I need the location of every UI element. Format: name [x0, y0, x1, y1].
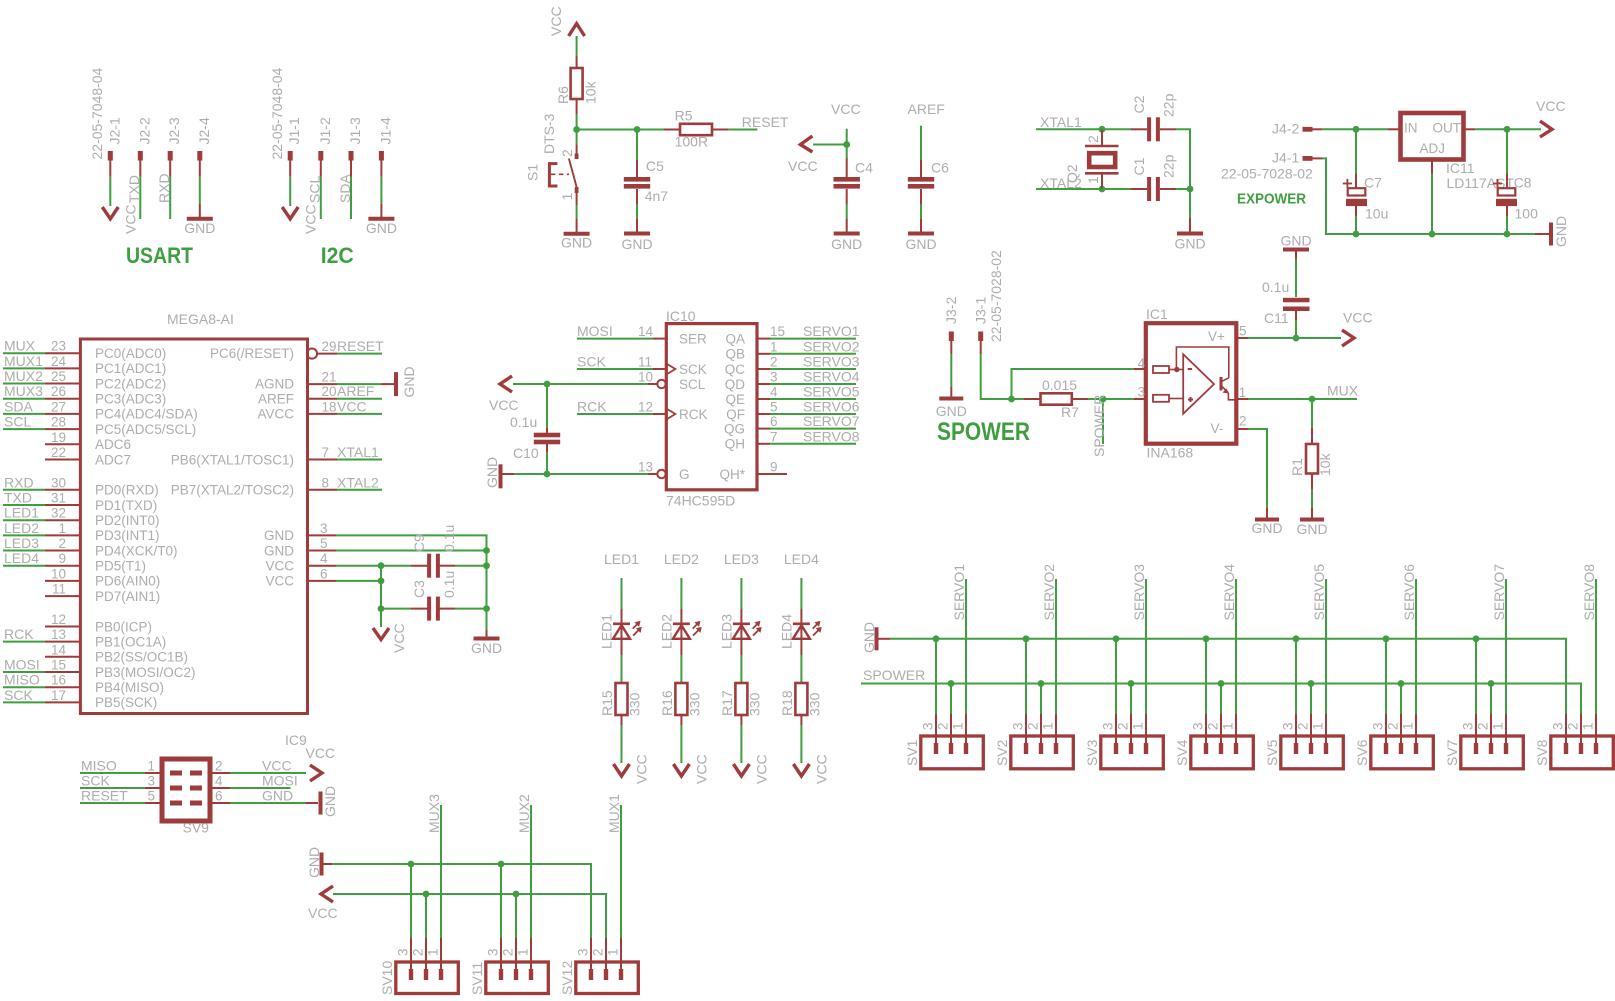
svg-text:LED4: LED4 — [784, 551, 819, 567]
resistor R15 330 — [616, 683, 628, 715]
svg-text:9: 9 — [770, 460, 778, 475]
node reset junction at R6 — [573, 126, 580, 133]
MEGA8 pin 17 PB5(SCK) — [45, 701, 80, 703]
svg-text:VCC: VCC — [634, 754, 650, 784]
wire pin 5 to cap rail — [336, 550, 487, 552]
svg-text:21: 21 — [322, 370, 337, 385]
svg-text:15: 15 — [51, 658, 66, 673]
MEGA8 pin 27 PC4(ADC4/SDA) — [45, 413, 80, 415]
svg-text:SCL: SCL — [4, 414, 31, 430]
svg-text:SER: SER — [679, 331, 707, 346]
svg-text:25: 25 — [51, 369, 66, 384]
svg-text:G: G — [679, 467, 690, 482]
svg-text:SV4: SV4 — [1174, 739, 1190, 766]
svg-text:PB5(SCK): PB5(SCK) — [95, 695, 157, 710]
svg-text:QB: QB — [725, 347, 745, 362]
wire R16 to VCC — [680, 725, 682, 763]
svg-text:3: 3 — [320, 521, 328, 536]
svg-text:3: 3 — [1100, 722, 1115, 730]
svg-text:3: 3 — [920, 722, 935, 730]
svg-text:PC6(/RESET): PC6(/RESET) — [210, 346, 294, 361]
svg-text:3: 3 — [1010, 722, 1025, 730]
wire AREF to C6 — [920, 126, 922, 160]
svg-text:RXD: RXD — [4, 474, 34, 490]
net SERVO4 wire drop — [1235, 579, 1237, 714]
svg-text:J1-3: J1-3 — [347, 117, 363, 144]
net RCK wire to IC10 — [577, 413, 653, 415]
svg-text:PD3(INT1): PD3(INT1) — [95, 528, 160, 543]
svg-text:IC10: IC10 — [666, 308, 696, 324]
wire J2-4 to GND — [199, 177, 201, 204]
svg-text:GND: GND — [184, 220, 215, 236]
wire C5 top — [636, 130, 638, 161]
capacitor C8 100 — [1506, 129, 1508, 173]
net LED1 wire to MEGA8 pin 32 — [3, 519, 45, 521]
svg-text:SCL: SCL — [307, 176, 323, 203]
svg-text:3: 3 — [485, 948, 500, 956]
wire S1 to GND — [576, 205, 578, 219]
MEGA8 pin 12 PB0(ICP) — [45, 626, 80, 628]
svg-text:5: 5 — [1239, 324, 1247, 339]
svg-text:SERVO3: SERVO3 — [803, 354, 860, 370]
supply VCC arrow IC10 — [500, 376, 512, 392]
MEGA8 pin 13 PB1(OC1A) — [45, 641, 80, 643]
supply VCC arrow SV9 — [310, 765, 322, 781]
resistor R6 10k — [576, 56, 578, 68]
net MISO wire to MEGA8 pin 16 — [3, 686, 45, 688]
svg-text:C8: C8 — [1514, 175, 1532, 191]
svg-text:2: 2 — [500, 948, 515, 956]
wire GND drop SV7 — [1475, 639, 1477, 714]
svg-text:MISO: MISO — [4, 672, 40, 688]
wire C9 to right rail — [455, 565, 487, 567]
node junction SPOWER SV3 — [1128, 680, 1135, 687]
svg-text:SCK: SCK — [577, 354, 606, 370]
svg-text:1: 1 — [1085, 176, 1101, 184]
svg-text:GND: GND — [1251, 520, 1282, 536]
wire GND drop SV10 — [410, 864, 412, 938]
MEGA8 pin 15 PB3(MOSI/OC2) — [45, 671, 80, 673]
wire pin 3 to cap rail — [336, 535, 487, 550]
svg-text:SERVO3: SERVO3 — [1131, 564, 1147, 621]
node junction SPOWER SV6 — [1398, 680, 1405, 687]
svg-text:PD6(AIN0): PD6(AIN0) — [95, 574, 160, 589]
servo connector SV5 — [1281, 736, 1344, 769]
node junction C3 left — [378, 605, 385, 612]
svg-text:1: 1 — [1310, 722, 1325, 730]
node junction VCC col pin4 — [378, 562, 385, 569]
svg-text:SV1: SV1 — [904, 739, 920, 766]
svg-text:R16: R16 — [659, 690, 675, 716]
svg-text:PD7(AIN1): PD7(AIN1) — [95, 589, 160, 604]
wire LED1 top — [621, 578, 623, 609]
svg-text:MUX1: MUX1 — [606, 794, 622, 833]
svg-text:XTAL2: XTAL2 — [337, 474, 379, 490]
svg-text:4: 4 — [1138, 356, 1146, 371]
svg-text:VCC: VCC — [308, 905, 338, 921]
wire SV9 pin2 to VCC — [210, 772, 230, 774]
svg-text:2: 2 — [1025, 722, 1040, 730]
net MUX2 wire drop — [530, 805, 532, 938]
svg-text:SERVO6: SERVO6 — [1401, 564, 1417, 621]
servo connector SV6 — [1371, 736, 1434, 769]
svg-text:1: 1 — [559, 193, 575, 201]
wire SPOWER drop SV6 — [1400, 684, 1402, 715]
svg-text:29: 29 — [322, 339, 337, 354]
svg-text:OUT: OUT — [1433, 121, 1462, 136]
svg-text:13: 13 — [638, 460, 653, 475]
wire pin 4 through C9 — [336, 565, 411, 567]
svg-text:2: 2 — [1115, 722, 1130, 730]
svg-text:SERVO6: SERVO6 — [803, 399, 860, 415]
wire VCC to SCL pin — [513, 383, 648, 385]
net SERVO3 wire drop — [1145, 579, 1147, 714]
net MUX wire to MEGA8 pin 23 — [3, 352, 45, 354]
svg-text:SV3: SV3 — [1084, 739, 1100, 766]
wire XTAL1 to C2 — [1102, 128, 1131, 130]
svg-text:330: 330 — [806, 692, 822, 716]
svg-text:SCK: SCK — [81, 773, 110, 789]
net RESET wire from pin 29 — [317, 353, 337, 355]
servo connector SV3 — [1101, 736, 1164, 769]
wire SPOWER drop SV7 — [1490, 684, 1492, 715]
svg-text:LED1: LED1 — [4, 505, 39, 521]
wire VCC column down — [380, 566, 382, 609]
MEGA8 pin 26 PC3(ADC3) — [45, 398, 80, 400]
capacitor C2 22p — [1131, 128, 1147, 130]
svg-text:1: 1 — [770, 339, 778, 354]
svg-text:19: 19 — [51, 430, 66, 445]
svg-text:TXD: TXD — [4, 490, 32, 506]
svg-text:RESET: RESET — [81, 788, 128, 804]
svg-text:QE: QE — [725, 392, 745, 407]
LED LED4 — [800, 609, 802, 655]
svg-text:C5: C5 — [646, 158, 664, 174]
svg-text:22: 22 — [51, 445, 66, 460]
svg-text:V-: V- — [1211, 421, 1224, 436]
svg-text:2: 2 — [770, 355, 778, 370]
net LED3 wire to MEGA8 pin 2 — [3, 550, 45, 552]
net XTAL2 wire at pin 8 — [337, 489, 382, 491]
svg-text:IC9: IC9 — [285, 732, 307, 748]
wire GND to G pin — [514, 473, 648, 475]
svg-text:QA: QA — [725, 331, 745, 346]
svg-text:LED2: LED2 — [664, 551, 699, 567]
wire to R1 — [1311, 399, 1313, 428]
wire C2 to GND column — [1176, 129, 1190, 189]
net RCK wire to MEGA8 pin 13 — [3, 641, 45, 643]
svg-text:MUX2: MUX2 — [4, 368, 43, 384]
node junction SPOWER SV5 — [1308, 680, 1315, 687]
svg-text:9: 9 — [58, 551, 66, 566]
svg-text:SPOWER: SPOWER — [937, 418, 1030, 446]
wire R6 to reset net — [576, 114, 578, 130]
svg-text:3: 3 — [1370, 722, 1385, 730]
svg-text:13: 13 — [51, 627, 66, 642]
wire R17 to VCC — [740, 725, 742, 763]
svg-text:0.1u: 0.1u — [1262, 279, 1289, 295]
svg-text:PC2(ADC2): PC2(ADC2) — [95, 376, 166, 391]
svg-text:VCC: VCC — [489, 397, 519, 413]
node junction C8 top — [1504, 126, 1511, 133]
svg-text:VCC: VCC — [337, 398, 367, 414]
svg-text:PB4(MISO): PB4(MISO) — [95, 680, 164, 695]
svg-text:27: 27 — [51, 399, 66, 414]
node junction C10 top — [544, 381, 551, 388]
svg-text:12: 12 — [51, 612, 66, 627]
svg-text:C9: C9 — [411, 534, 427, 552]
svg-text:J3-1: J3-1 — [973, 297, 989, 324]
svg-text:MEGA8-AI: MEGA8-AI — [167, 311, 234, 327]
svg-text:VCC: VCC — [1343, 310, 1373, 326]
MEGA8 pin 14 PB2(SS/OC1B) — [45, 656, 80, 658]
MEGA8 pin 28 PC5(ADC5/SCL) — [45, 428, 80, 430]
ground GND left of IC10 — [499, 464, 503, 488]
node junction shunt left — [1008, 396, 1015, 403]
net RESET wire and label — [729, 129, 758, 131]
net MUX1 wire to MEGA8 pin 24 — [3, 367, 45, 369]
svg-text:GND: GND — [1553, 216, 1569, 247]
resistor R17 330 — [735, 683, 747, 715]
svg-text:PB2(SS/OC1B): PB2(SS/OC1B) — [95, 650, 188, 665]
ground GND under C6 — [920, 219, 922, 232]
svg-text:R1: R1 — [1289, 458, 1305, 476]
svg-text:VCC: VCC — [813, 754, 829, 784]
svg-text:22-05-7028-02: 22-05-7028-02 — [1221, 166, 1313, 182]
svg-text:GND: GND — [831, 236, 862, 252]
svg-text:VCC: VCC — [123, 204, 139, 234]
net MOSI wire to IC10 — [577, 338, 653, 340]
svg-text:SERVO2: SERVO2 — [1041, 564, 1057, 621]
ground GND under J3-2 — [950, 387, 952, 397]
wire GND drop SV6 — [1385, 639, 1387, 714]
net SCK wire to IC10 — [577, 368, 653, 370]
svg-text:0.1u: 0.1u — [510, 414, 537, 430]
MEGA8 pin 2 PD4(XCK/T0) — [45, 550, 80, 552]
svg-text:1: 1 — [1239, 385, 1247, 400]
svg-text:22-05-7048-04: 22-05-7048-04 — [269, 67, 285, 159]
wire XTAL2 to C1 — [1102, 188, 1131, 190]
wire J1-1 to VCC — [289, 177, 291, 206]
svg-text:PD2(INT0): PD2(INT0) — [95, 513, 160, 528]
node junction GND SV5 — [1293, 635, 1300, 642]
svg-text:J4-1: J4-1 — [1272, 150, 1299, 166]
capacitor C5 4n7 — [636, 160, 638, 177]
wire VCC drop SV11 — [515, 894, 517, 938]
svg-text:PB0(ICP): PB0(ICP) — [95, 619, 152, 634]
svg-text:EXPOWER: EXPOWER — [1237, 191, 1306, 208]
op-amp IC1 INA168 — [1146, 323, 1237, 444]
svg-text:100R: 100R — [675, 134, 708, 150]
resistor R18 330 — [795, 683, 807, 715]
net MUX wire and label — [1248, 398, 1357, 400]
svg-text:R7: R7 — [1061, 404, 1079, 420]
wire LED4 to R18 — [800, 655, 802, 683]
svg-text:LED4: LED4 — [778, 614, 794, 649]
svg-text:SV2: SV2 — [994, 739, 1010, 766]
svg-text:2: 2 — [1385, 722, 1400, 730]
svg-text:4: 4 — [770, 385, 778, 400]
ground GND xtal — [1189, 218, 1191, 232]
svg-text:GND: GND — [1296, 521, 1327, 537]
svg-text:74HC595D: 74HC595D — [666, 493, 735, 509]
MEGA8 pin 10 PD6(AIN0) — [45, 580, 80, 582]
node junction rail C7 — [1353, 231, 1360, 238]
svg-text:SERVO7: SERVO7 — [1491, 564, 1507, 621]
svg-text:AREF: AREF — [908, 101, 945, 117]
node junction C10 bottom — [544, 471, 551, 478]
svg-text:16: 16 — [51, 673, 66, 688]
wire SPOWER drop SV3 — [1130, 684, 1132, 715]
pin 3 of IC1 — [1134, 398, 1146, 400]
svg-text:VCC: VCC — [262, 758, 292, 774]
wire pin4 to shunt — [1012, 369, 1135, 399]
net XTAL1 wire at pin 7 — [337, 459, 382, 461]
svg-text:INA168: INA168 — [1147, 445, 1194, 461]
node junction SPOWER SV2 — [1038, 680, 1045, 687]
svg-text:V+: V+ — [1208, 329, 1225, 344]
svg-text:0.1u: 0.1u — [441, 571, 457, 598]
servo connector SV7 — [1461, 736, 1524, 769]
svg-text:1: 1 — [1130, 722, 1145, 730]
wire GND drop SV2 — [1025, 639, 1027, 714]
svg-text:1: 1 — [515, 948, 530, 956]
svg-text:MUX1: MUX1 — [4, 353, 43, 369]
svg-text:MUX2: MUX2 — [516, 794, 532, 833]
svg-text:GND: GND — [936, 403, 967, 419]
pin 1 output of IC1 — [1236, 398, 1248, 400]
svg-text:J2-1: J2-1 — [106, 117, 122, 144]
svg-text:SCK: SCK — [679, 362, 707, 377]
svg-text:8: 8 — [322, 475, 330, 490]
svg-text:100: 100 — [1515, 206, 1539, 222]
MEGA8 pin 19 ADC6 — [45, 443, 80, 445]
MEGA8 pin 32 PD2(INT0) — [45, 519, 80, 521]
node junction SPOWER — [1100, 396, 1107, 403]
svg-text:PD5(T1): PD5(T1) — [95, 559, 146, 574]
svg-text:3: 3 — [1138, 385, 1146, 400]
wire C1 to GND column — [1176, 188, 1190, 190]
svg-text:3: 3 — [147, 774, 155, 789]
svg-text:MUX3: MUX3 — [4, 383, 43, 399]
resistor R5 100R — [664, 129, 680, 131]
svg-text:R17: R17 — [719, 690, 735, 716]
ground GND SV9 — [306, 802, 318, 804]
node junction C7 — [1353, 126, 1360, 133]
ground GND under S1 — [576, 219, 578, 232]
svg-text:J1-2: J1-2 — [317, 117, 333, 144]
wire R15 to VCC — [621, 725, 623, 763]
net SCL wire J1-2 — [320, 177, 322, 219]
MEGA8 pin 31 PD1(TXD) — [45, 504, 80, 506]
svg-text:C1: C1 — [1131, 157, 1147, 175]
wire mux GND rail — [332, 864, 591, 938]
svg-text:7: 7 — [770, 429, 778, 444]
pin 2 V- of IC1 — [1236, 428, 1248, 430]
svg-text:AREF: AREF — [258, 392, 294, 407]
capacitor C4 — [846, 158, 848, 177]
svg-text:5: 5 — [320, 536, 328, 551]
net SERVO2 wire drop — [1055, 579, 1057, 714]
wire C4 to GND — [846, 205, 848, 219]
svg-text:SV8: SV8 — [1534, 739, 1550, 766]
svg-text:SPOWER: SPOWER — [863, 667, 925, 683]
wire IC1 V+ to VCC — [1248, 337, 1341, 339]
svg-text:MISO: MISO — [81, 758, 117, 774]
net SERVO8 wire drop — [1595, 579, 1597, 714]
svg-text:Q2: Q2 — [1064, 164, 1080, 183]
svg-text:31: 31 — [51, 491, 66, 506]
svg-text:LED4: LED4 — [4, 550, 39, 566]
wire C5 to GND — [636, 205, 638, 219]
net SERVO5 wire drop — [1325, 579, 1327, 714]
wire C4 top — [846, 145, 848, 159]
svg-text:IC1: IC1 — [1146, 306, 1168, 322]
svg-text:SPOWER: SPOWER — [1091, 395, 1107, 457]
svg-text:1: 1 — [1220, 722, 1235, 730]
wire mux VCC rail — [333, 894, 606, 938]
MEGA8 pin 1 PD3(INT1) — [45, 534, 80, 536]
svg-text:LED1: LED1 — [604, 551, 639, 567]
svg-text:AGND: AGND — [255, 376, 294, 391]
net LED4 wire to MEGA8 pin 9 — [3, 565, 45, 567]
svg-text:DTS-3: DTS-3 — [541, 113, 557, 154]
node junction GND SV1 — [933, 635, 940, 642]
wire LED3 to R17 — [740, 655, 742, 683]
svg-text:11: 11 — [52, 582, 66, 597]
svg-text:0.1u: 0.1u — [441, 525, 457, 552]
net LED2 wire to MEGA8 pin 1 — [3, 534, 45, 536]
node junction right rail pin5 — [483, 547, 490, 554]
node junction rail ADJ — [1429, 231, 1436, 238]
svg-text:2: 2 — [590, 948, 605, 956]
svg-text:30: 30 — [51, 475, 66, 490]
svg-text:GND: GND — [1174, 236, 1205, 252]
switch S1 DTS-3 — [576, 130, 578, 145]
svg-text:C10: C10 — [513, 445, 539, 461]
mux connector SV12 — [576, 962, 639, 994]
svg-text:2: 2 — [1085, 135, 1101, 143]
supply VCC arrow J1-1 — [282, 207, 298, 219]
wire J3-1 to shunt R7 — [981, 354, 1012, 399]
svg-text:2: 2 — [1295, 722, 1310, 730]
capacitor C6 — [920, 160, 922, 177]
svg-text:2: 2 — [58, 536, 66, 551]
capacitor C9 0.1u — [411, 565, 428, 567]
svg-text:PB1(OC1A): PB1(OC1A) — [95, 634, 166, 649]
supply VCC arrow LED3 — [733, 764, 749, 776]
svg-text:VCC: VCC — [753, 754, 769, 784]
wire pin2 to GND — [1248, 429, 1267, 508]
wire J4-2 to IC11 IN — [1322, 128, 1388, 130]
svg-text:C7: C7 — [1364, 175, 1382, 191]
svg-text:C11: C11 — [1264, 310, 1289, 326]
svg-text:3: 3 — [1190, 722, 1205, 730]
svg-text:MUX: MUX — [1327, 383, 1359, 399]
wire LED1 to R15 — [621, 655, 623, 683]
svg-text:3: 3 — [1460, 722, 1475, 730]
svg-text:GND: GND — [322, 786, 338, 817]
net SDA wire J1-3 — [350, 177, 352, 219]
svg-text:GND: GND — [484, 457, 500, 488]
wire SPOWER drop SV4 — [1220, 684, 1222, 715]
svg-text:SV9: SV9 — [183, 820, 210, 836]
resistor R7 0.015 shunt — [1024, 398, 1041, 400]
svg-text:1: 1 — [605, 948, 620, 956]
svg-text:PC0(ADC0): PC0(ADC0) — [95, 346, 166, 361]
net MUX3 wire to MEGA8 pin 26 — [3, 398, 45, 400]
svg-text:XTAL1: XTAL1 — [337, 444, 379, 460]
